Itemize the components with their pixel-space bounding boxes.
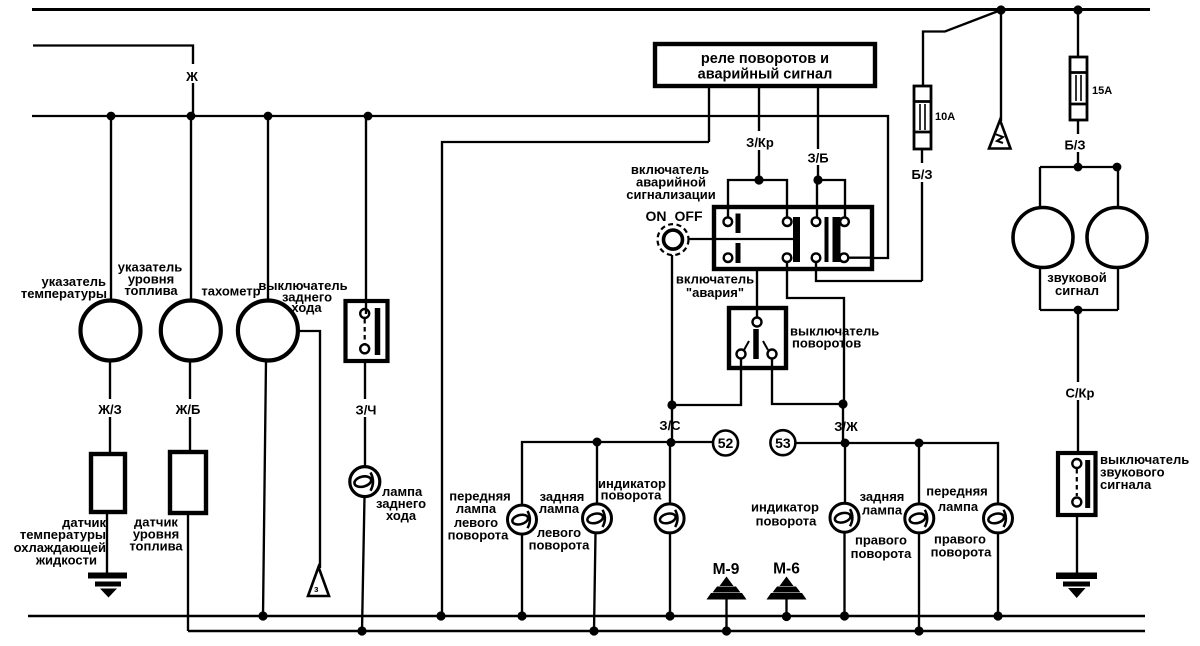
wire fuel gauge to sensor [189, 361, 191, 452]
node junction rear left lamp on lower bus [589, 626, 598, 635]
label wire B/Z left [905, 163, 939, 182]
wire upper ground bus [28, 615, 1145, 618]
wire tachometer bottom to upper bus [263, 361, 266, 617]
wire hazard pin b4 to box right edge [849, 257, 873, 259]
fuse 10A [914, 86, 931, 149]
label wire S/Kr [1059, 382, 1099, 400]
gauge temperature indicator circle [81, 301, 141, 361]
svg-text:индикатор: индикатор [751, 500, 819, 515]
wire hazard pin b3 down jog right up to 10A fuse [816, 262, 922, 281]
svg-text:З/Ж: З/Ж [834, 419, 858, 434]
wire reverse lamp down to lower bus [362, 497, 365, 631]
hazard switch pin top 4 [840, 217, 849, 226]
turn switch pin bottom right [768, 350, 777, 359]
ground symbol under temperature sensor [88, 573, 127, 598]
fuse 15A [1070, 57, 1087, 120]
wire hazard box bottom to turn switch [756, 269, 758, 318]
hazard switch pin top 2 [783, 217, 792, 226]
node junction M-6 on upper bus [782, 612, 791, 621]
node junction bus to temperature gauge [107, 112, 116, 121]
wire second feed line with drop labeled Zh [33, 46, 193, 117]
node junction left indicator on upper bus [665, 611, 674, 620]
hazard switch pin bottom 4 [840, 253, 849, 262]
svg-text:лампа: лампа [862, 503, 903, 518]
node junction bus to fuel gauge [187, 112, 196, 121]
svg-text:з: з [314, 584, 319, 594]
node junction right indicator on upper bus [840, 611, 849, 620]
gauge tachometer circle [238, 301, 298, 361]
wire horn switch to ground [1076, 515, 1078, 573]
horn switch pin top [1072, 459, 1081, 468]
wire tachometer to connector triangle 3 [297, 331, 320, 568]
hazard switch pin bottom 1 [724, 253, 733, 262]
svg-text:топлива: топлива [129, 539, 183, 554]
wire temperature gauge to sensor [109, 361, 111, 454]
svg-text:поворота: поворота [756, 514, 817, 529]
wire left indicator to upper ground bus [669, 533, 671, 616]
svg-text:С/Кр: С/Кр [1066, 386, 1095, 401]
horn switch pin bottom [1072, 498, 1081, 507]
svg-text:ON: ON [646, 208, 667, 224]
wire feeder to rear right lamp [918, 443, 920, 504]
svg-text:температуры: температуры [21, 286, 107, 301]
wire 10A fuse down B/Z [921, 149, 923, 281]
relay box turn signals and hazard [655, 44, 875, 86]
wire Z/B down to hazard pin [816, 180, 818, 217]
horn switch plunger dashed [1076, 469, 1078, 496]
wire third horizontal bus to hazard switch right side [32, 116, 888, 258]
wire relay left pin down [708, 86, 710, 142]
lamp rear right turn [905, 504, 934, 533]
node junction Z/S at feeder [667, 438, 676, 447]
svg-text:лампа: лампа [456, 501, 497, 516]
switch hazard "avaria" box [714, 207, 872, 269]
turn switch pin bottom left [737, 350, 746, 359]
hazard switch contact bar section3b [833, 217, 841, 262]
svg-text:лампа: лампа [539, 501, 580, 516]
lamp front left turn [508, 505, 537, 534]
svg-text:15A: 15A [1092, 85, 1112, 97]
node junction on top bus at 15A fuse branch [1073, 5, 1082, 14]
hazard switch pin top 3 [812, 217, 821, 226]
svg-text:тахометр: тахометр [201, 284, 260, 299]
wire lamp feeder left group [522, 442, 713, 504]
lamp right turn indicator [830, 503, 859, 532]
switch turn signal box [729, 308, 786, 368]
wire lamp feeder right group [796, 443, 999, 504]
lamp rear left turn [583, 504, 612, 533]
svg-text:OFF: OFF [675, 208, 703, 224]
wire feeder to rear left lamp [596, 442, 598, 504]
wire relay middle pin down Z/Kr [758, 86, 760, 180]
reverse switch pin bottom [360, 344, 369, 353]
node junction feeder to rear right lamp [915, 439, 924, 448]
lamp left turn indicator [655, 504, 684, 533]
turn switch contact tick left [744, 341, 749, 350]
reverse switch plunger dashed [364, 319, 366, 344]
hazard indicator triangle lamp [989, 120, 1011, 149]
svg-text:аварийный сигнал: аварийный сигнал [698, 67, 833, 83]
wire right indicator to upper ground bus [843, 532, 845, 616]
sensor coolant temperature sender rectangle [91, 454, 125, 512]
wire ON/OFF knob to middle contact [688, 238, 794, 240]
horn switch contact bar [1085, 460, 1090, 508]
wire bus down to tachometer [267, 116, 269, 301]
label wire B/Z right [1060, 134, 1091, 152]
wire reverse switch to reverse lamp Z/Ch [364, 361, 366, 466]
connector pin 52 circle [713, 431, 738, 456]
wire relay left pin to long left rail [442, 142, 709, 616]
node junction reverse lamp on lower bus [357, 626, 366, 635]
turn switch pin top [753, 318, 762, 327]
wire diagonal from top bus to 10A fuse [923, 10, 1001, 86]
node junction Z/Zh at feeder [841, 439, 850, 448]
node junction on top bus at hazard lamp branch [996, 5, 1005, 14]
wire top power bus [32, 8, 1150, 11]
node junction tachometer wire on upper bus [258, 611, 267, 620]
svg-text:Ж: Ж [185, 69, 198, 84]
svg-text:хода: хода [291, 300, 322, 315]
svg-text:Ж/З: Ж/З [97, 402, 122, 417]
node junction bus to tachometer [264, 112, 273, 121]
horn right circle [1087, 208, 1147, 268]
wire hazard pin b2 down jog right down to Z/Zh junction [787, 262, 844, 404]
hazard switch pin bottom 2 [783, 253, 792, 262]
svg-text:сигнал: сигнал [1055, 283, 1099, 298]
svg-text:53: 53 [775, 435, 791, 451]
wire ON/OFF knob down to Z/S junction [671, 255, 673, 443]
node junction horn bottom rail [1074, 306, 1083, 315]
wire feeder to left indicator lamp [669, 442, 671, 504]
svg-text:М-6: М-6 [773, 561, 800, 578]
wire right horn to bottom rail [1117, 267, 1119, 310]
node junction Z/B above hazard switch [813, 175, 822, 184]
wire Z/Zh junction down to lamp feeder [842, 404, 844, 443]
node junction Z/S upper [667, 400, 676, 409]
wire front right lamp to upper ground bus [997, 533, 999, 616]
wire left horn to bottom rail [1039, 267, 1041, 310]
switch knob ON/OFF dashed circle [658, 224, 689, 255]
svg-text:Ж/Б: Ж/Б [175, 402, 201, 417]
hazard switch pin top 1 [724, 217, 733, 226]
horn left circle [1013, 208, 1073, 268]
node junction rear right lamp on lower bus [914, 626, 923, 635]
wire 15A fuse down to horn rail B/Z [1077, 120, 1079, 167]
svg-text:поворота: поворота [851, 546, 912, 561]
node junction front left lamp on upper bus [517, 611, 526, 620]
svg-text:хода: хода [386, 508, 417, 523]
wire turn switch right pin to Z/Zh junction [772, 359, 843, 405]
hazard switch contact bar section2 [793, 217, 800, 262]
svg-text:поворота: поворота [448, 528, 509, 543]
wire M-6 to upper ground bus [785, 599, 787, 617]
svg-text:сигнализации: сигнализации [626, 187, 715, 202]
svg-text:поворота: поворота [529, 538, 590, 553]
svg-text:лампа: лампа [938, 499, 979, 514]
switch horn box [1058, 453, 1096, 515]
svg-text:топлива: топлива [124, 283, 178, 298]
wire Z/Kr jog to hazard switch pins [728, 180, 787, 217]
node junction Z/Kr above hazard switch [754, 175, 763, 184]
svg-text:реле поворотов и: реле поворотов и [701, 51, 829, 67]
wire horn bottom rail [1040, 309, 1118, 311]
hazard switch contact bar section3a [825, 217, 829, 262]
node junction left rail on upper bus [436, 611, 445, 620]
node junction feeder to rear left lamp [593, 438, 602, 447]
svg-text:сигнала: сигнала [1100, 477, 1152, 492]
label wire Z/B [803, 149, 834, 165]
wire front left lamp to upper ground bus [521, 534, 523, 616]
hazard switch contact bar section1 lower [736, 243, 741, 263]
wire Z/B jog right to hazard pin [817, 180, 845, 217]
reverse switch pin top [360, 309, 369, 318]
connector M-9 chassis symbol [707, 577, 747, 600]
node junction M-9 on lower bus [722, 626, 731, 635]
wire turn switch left pin to Z/S junction [672, 359, 741, 406]
wire rail to right horn [1117, 167, 1119, 207]
wire rear left lamp to lower ground bus [594, 533, 596, 631]
label wire Zh/Z [93, 399, 127, 417]
lamp reverse light bulb [350, 467, 380, 497]
wire fuel sensor down to lower ground bus [187, 513, 189, 631]
wire relay right pin down Z/B [817, 86, 819, 180]
label Zh wire [183, 64, 204, 83]
svg-text:10A: 10A [935, 111, 955, 123]
switch knob inner circle [664, 230, 683, 249]
connector M-6 chassis symbol [767, 577, 807, 600]
node junction horn rail right [1113, 163, 1122, 172]
wire top bus down to 15A fuse [1077, 10, 1079, 57]
svg-text:жидкости: жидкости [35, 553, 97, 568]
svg-text:З/Ч: З/Ч [356, 403, 377, 418]
switch reverse light box [346, 301, 388, 361]
label wire Z/Ch [350, 399, 382, 417]
turn switch contact tick right [763, 341, 768, 350]
svg-text:поворота: поворота [601, 488, 662, 503]
label wire Z/Kr [741, 131, 779, 150]
node junction front right lamp on upper bus [993, 611, 1002, 620]
wire rear right lamp to lower ground bus [918, 533, 920, 631]
svg-text:З/Кр: З/Кр [746, 135, 774, 150]
hazard switch pin bottom 3 [812, 253, 821, 262]
hazard switch contact bar section1 upper [736, 214, 741, 234]
svg-text:З/С: З/С [659, 418, 681, 433]
connector triangle 3 [308, 567, 329, 596]
hazard triangle squiggle [995, 134, 1003, 143]
node junction horn rail center [1074, 163, 1083, 172]
ground symbol under horn switch [1056, 573, 1097, 599]
wire top bus down to hazard indicator lamp [1000, 10, 1002, 121]
svg-text:М-9: М-9 [713, 561, 740, 578]
wire horn to horn switch S/Kr [1077, 310, 1079, 453]
lamp front right turn [984, 504, 1013, 533]
svg-text:поворотов: поворотов [792, 336, 861, 351]
reverse switch contact bar [375, 308, 381, 355]
svg-text:передняя: передняя [926, 484, 988, 499]
wire horn top rail [1040, 166, 1118, 168]
gauge fuel level indicator circle [161, 301, 221, 361]
svg-text:З/Б: З/Б [807, 151, 828, 166]
turn switch lever bar [753, 329, 759, 359]
wire bus down to temperature gauge [110, 116, 112, 301]
wire lower ground bus [188, 630, 1145, 633]
sensor fuel level sender rectangle [170, 452, 206, 513]
svg-text:Б/З: Б/З [911, 167, 932, 182]
node junction bus to reverse switch [364, 112, 373, 121]
wire temperature sensor to ground [106, 512, 108, 573]
label wire Zh/B [171, 399, 205, 417]
wire bus down to reverse switch [365, 116, 367, 314]
svg-text:поворота: поворота [931, 545, 992, 560]
node junction Z/Zh upper [838, 399, 847, 408]
svg-text:"авария": "авария" [686, 285, 744, 300]
svg-text:Б/З: Б/З [1064, 138, 1085, 153]
wire rail to left horn [1039, 167, 1041, 208]
wire feeder to right indicator lamp [844, 443, 846, 503]
connector pin 53 circle [770, 430, 795, 455]
svg-text:52: 52 [718, 435, 734, 451]
wire bus down to fuel gauge [190, 116, 192, 301]
wire M-9 to lower ground bus [725, 599, 727, 631]
